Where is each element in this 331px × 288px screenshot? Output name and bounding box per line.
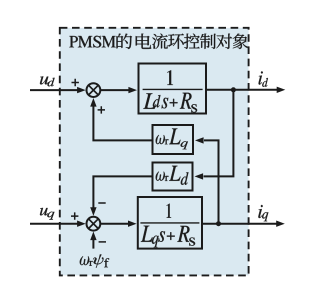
node label u_d (40, 76, 55, 86)
arrowhead i_q output (276, 221, 285, 227)
arrowhead into block G3 (omega_r L_q) (195, 137, 204, 143)
plus sign (u_d input polarity) (72, 79, 79, 86)
node label omega_r psi_f (80, 255, 110, 268)
title text CJK: 的电流环控制对象 (117, 34, 249, 49)
wire: i_q junction up to G3 input (204, 140, 219, 223)
arrowhead into S2 from above (90, 207, 96, 216)
diagram enclosure: dashed boundary box of PMSM current-loop plant (60, 28, 249, 276)
wire: S2 to q-axis plant block (101, 223, 129, 225)
arrowhead into summing junction S2 (left) (77, 221, 86, 227)
wire: i_d junction down to omega_r L_d input (204, 90, 234, 177)
plus sign (feedback into S1 from below) (98, 106, 105, 113)
node label u_q (40, 208, 54, 220)
arrowhead into block G4 (omega_r L_d) (195, 173, 204, 179)
arrowhead into S1 from below (90, 98, 96, 107)
node i_q junction dot (216, 221, 221, 226)
arrowhead into d-axis plant block G1 (128, 87, 137, 93)
summing junction S2 (q-axis): circle with X (87, 217, 101, 231)
wire: omega_r psi_f input from below (92, 239, 94, 249)
arrowhead into q-axis plant block G2 (128, 221, 137, 227)
arrowhead into summing junction S1 (left) (77, 87, 86, 93)
node label i_q (258, 205, 268, 221)
G1 fraction bar (143, 88, 203, 90)
block G3: omega_r L_q coupling gain (153, 125, 194, 154)
wire: u_d input line (30, 89, 78, 91)
title text latin: PMSM (69, 36, 115, 48)
node label i_d (259, 71, 268, 86)
wire: u_q input line (30, 223, 78, 225)
G4 label omega_r L_d (156, 166, 189, 185)
G3 label omega_r L_q (156, 129, 188, 150)
arrowhead into S2 from below (90, 232, 96, 241)
plus sign (u_q input polarity) (71, 212, 78, 219)
summing junction S1 (d-axis): circle with X (87, 83, 101, 97)
block G1: transfer function 1/(L_d s + R_s) (139, 64, 207, 114)
G1 fraction text 1 / L_d s + R_s (143, 70, 197, 112)
minus sign (G4 feedback into S2) (98, 202, 105, 204)
block G4: omega_r L_d coupling gain (153, 163, 193, 191)
minus sign (omega_r psi_f into S2) (99, 241, 106, 243)
G2 fraction text 1 / L_q s + R_s (141, 204, 195, 248)
arrowhead i_d output (277, 87, 286, 93)
wire: G4 output to S2 (negative feedback) (93, 176, 151, 211)
block G2: transfer function 1/(L_q s + R_s) (138, 197, 202, 249)
G2 fraction bar (140, 222, 199, 224)
node i_d junction dot (231, 87, 236, 92)
wire: G1 output to i_d (207, 89, 278, 91)
wire: S1 to d-axis plant block (101, 89, 129, 91)
wire: G2 output to i_q (202, 223, 277, 225)
wire: G3 output to S1 (positive feedback) (93, 103, 151, 141)
